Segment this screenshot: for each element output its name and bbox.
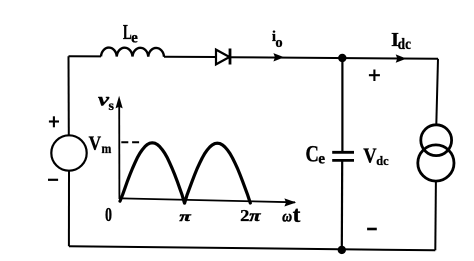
plus sign source (49, 120, 59, 122)
current source I1 bottom circle (418, 145, 454, 181)
svg-text:0: 0 (105, 204, 112, 226)
graph v axis arrowhead (116, 96, 123, 109)
wire bottom (69, 246, 435, 250)
voltage source Vs (51, 135, 86, 170)
diode D1 (216, 50, 230, 65)
svg-text:m: m (102, 141, 112, 156)
svg-text:o: o (275, 35, 282, 51)
wire right side down (436, 59, 438, 125)
wire diode to right corner (230, 57, 438, 59)
capacitor branch lower wire (341, 162, 344, 250)
graph v axis (118, 105, 120, 199)
graph t axis arrowhead (284, 198, 296, 206)
svg-text:s: s (109, 99, 115, 114)
minus sign load (367, 228, 377, 231)
wire inductor to diode (164, 56, 216, 58)
svg-text:V: V (89, 134, 102, 155)
svg-text:t: t (293, 202, 301, 227)
Vm dashed level (121, 141, 140, 143)
svg-text:π: π (179, 210, 191, 225)
wire left side upper (68, 56, 70, 135)
wire top-left segment (69, 55, 102, 57)
node junction top (cap branch) (338, 54, 346, 62)
node junction bottom (cap branch) (338, 246, 346, 254)
capacitor branch upper wire (341, 58, 343, 151)
svg-text:C: C (306, 142, 319, 167)
waveform vs curve (120, 143, 250, 203)
minus sign source (48, 179, 58, 181)
arrow Idc (396, 54, 407, 62)
capacitor Ce plates (332, 151, 354, 154)
svg-text:V: V (363, 143, 377, 167)
arrow io (273, 53, 284, 61)
svg-text:e: e (131, 30, 138, 47)
svg-text:e: e (318, 151, 325, 168)
svg-text:2: 2 (240, 206, 249, 225)
graph t axis (119, 198, 295, 202)
wire left side lower (68, 171, 70, 247)
svg-text:π: π (249, 208, 261, 225)
svg-text:dc: dc (376, 153, 389, 168)
svg-text:dc: dc (398, 36, 411, 53)
plus sign load (369, 74, 380, 76)
wire below current source (434, 181, 437, 250)
current source I1 top circle (421, 125, 452, 156)
svg-text:ω: ω (282, 209, 292, 226)
inductor Le (101, 48, 164, 57)
